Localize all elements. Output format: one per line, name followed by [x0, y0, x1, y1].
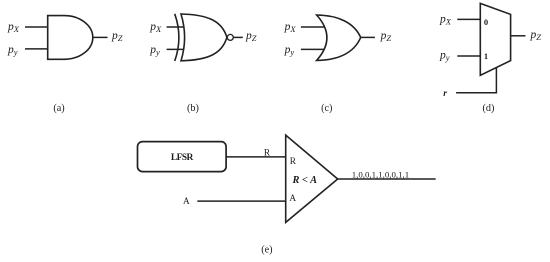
wire pZ output of multiplexer [511, 35, 526, 37]
XNOR gate (b) input double-curve arc [175, 14, 179, 61]
wire pY input of OR gate [301, 48, 324, 50]
svg-text:0: 0 [484, 17, 488, 27]
comparator U2 triangle R &lt; A [286, 135, 338, 222]
XNOR gate (b) output inversion bubble [227, 34, 233, 40]
wire pZ output of AND gate [93, 36, 108, 38]
wire pY input of AND gate [25, 48, 48, 50]
multiplexer U1 trapezoid body (d) [480, 3, 510, 75]
svg-text:r: r [443, 89, 447, 99]
wire pY input of XNOR gate [167, 48, 184, 50]
wire output bitstream of comparator [338, 178, 436, 180]
svg-text:R < A: R < A [292, 175, 318, 186]
wire A input of comparator [197, 200, 285, 202]
AND gate (a) [48, 16, 93, 60]
svg-text:(a): (a) [53, 103, 64, 114]
svg-text:(c): (c) [321, 103, 332, 114]
svg-text:(e): (e) [261, 245, 272, 256]
svg-text:A: A [289, 194, 296, 204]
wire pZ output of XNOR gate [234, 36, 243, 38]
svg-text:(d): (d) [482, 103, 494, 114]
wire pX input of AND gate [25, 26, 48, 28]
wire pX input of OR gate [301, 26, 325, 28]
wire pX input of XNOR gate [167, 26, 184, 28]
wire pX input of multiplexer [457, 18, 480, 20]
svg-text:(b): (b) [187, 103, 199, 114]
svg-text:1,0,0,1,1,0,0,1,1: 1,0,0,1,1,0,0,1,1 [352, 170, 409, 180]
wire pZ output of OR gate [361, 36, 375, 38]
OR gate (c) [317, 15, 361, 60]
svg-text:1: 1 [484, 51, 488, 61]
svg-text:R: R [264, 148, 271, 158]
XNOR gate (b) body [181, 14, 227, 61]
svg-text:A: A [183, 197, 190, 207]
wire pY input of multiplexer [457, 55, 480, 57]
svg-text:LFSR: LFSR [171, 153, 194, 163]
svg-text:R: R [290, 157, 297, 167]
wire R from LFSR to comparator [226, 156, 286, 158]
wire r select input of multiplexer [456, 68, 496, 93]
LFSR block (e) [138, 142, 227, 172]
